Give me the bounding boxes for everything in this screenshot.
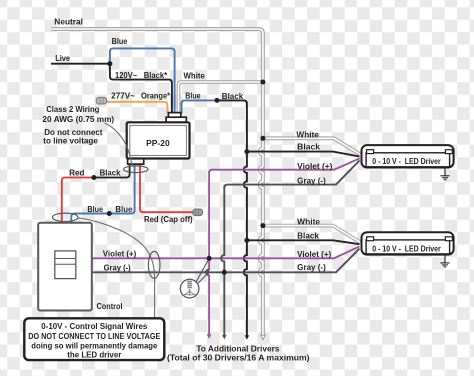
wire: violet from Control to LED driver 2 <box>92 246 360 258</box>
svg-text:Gray (-): Gray (-) <box>297 263 326 272</box>
wire: black trunk from blue junction down (hops left) <box>217 100 247 336</box>
wire: 277V orange to PP-20 top <box>107 102 168 114</box>
svg-text:Black: Black <box>100 168 121 177</box>
wire: white branch to LED driver 2 <box>264 226 360 243</box>
svg-text:Blue: Blue <box>185 91 201 100</box>
node: black trunk / driver2 black <box>244 238 249 243</box>
wire nut on 277V orange lead <box>96 97 107 104</box>
svg-text:DO NOT CONNECT TO LINE VOLTAGE: DO NOT CONNECT TO LINE VOLTAGE <box>28 332 161 341</box>
arrow: white trunk to additional drivers <box>261 335 266 340</box>
wire: violet trunk vertical (hops left at gray crossing) <box>206 172 209 336</box>
node: violet trunk junction <box>207 256 212 261</box>
cap on red lead (cap off) <box>193 209 203 216</box>
wire: Neutral white trunk (hops left over crossing horizontals) <box>51 29 263 336</box>
svg-text:to line voltage: to line voltage <box>43 137 98 146</box>
svg-text:Blue: Blue <box>112 37 128 46</box>
wire: black from junction up to PP-20 bottom <box>94 164 130 178</box>
wire: gray from Control to LED driver 2 <box>92 249 360 273</box>
ground symbol driver 2 <box>440 255 449 267</box>
control (0-10V dimmer) box <box>38 223 92 311</box>
wire: black branch to LED driver 2 <box>247 240 360 244</box>
svg-text:Red (Cap off): Red (Cap off) <box>144 215 193 224</box>
svg-text:120V~: 120V~ <box>115 71 137 80</box>
warning note box <box>24 318 164 360</box>
ellipse around PP-20 bottom leads <box>124 166 148 173</box>
svg-text:Red: Red <box>69 168 84 177</box>
twisted-pair detail icon <box>180 279 199 298</box>
PP-20 bottom connector <box>128 158 144 164</box>
node: white trunk / driver2 white <box>260 223 265 228</box>
svg-text:Neutral: Neutral <box>54 18 83 27</box>
node: white trunk / driver1 white <box>260 136 265 141</box>
LED driver 1 box <box>362 145 454 167</box>
leader from twist icon to gray wire with arrowhead <box>198 273 208 283</box>
svg-text:Violet (+): Violet (+) <box>103 249 137 258</box>
PP-20 top connector <box>166 113 186 123</box>
ellipse around control top leads <box>52 213 78 221</box>
ground symbol driver 1 <box>440 168 449 180</box>
wire: red from Control up to junction <box>62 178 94 223</box>
svg-text:White: White <box>297 217 320 226</box>
wire: blue from Control up to PP-20 bottom <box>71 164 134 223</box>
ellipse around violet/gray pair <box>148 251 160 278</box>
svg-text:Violet (+): Violet (+) <box>297 162 333 171</box>
node: blue-blue junction <box>107 211 112 216</box>
node: Live/blue/black junction <box>107 61 112 66</box>
wire: white branch to LED driver 1 <box>264 138 360 154</box>
svg-text:Control: Control <box>97 302 123 311</box>
node: white trunk / PP-20 white <box>260 80 265 85</box>
svg-text:To Additional Drivers: To Additional Drivers <box>196 344 280 353</box>
wire: blue from Live junction over to PP-20 top <box>110 48 175 113</box>
wire: red capped-off lead from PP-20 bottom <box>140 164 193 213</box>
svg-text:20 AWG (0.75 mm): 20 AWG (0.75 mm) <box>42 115 114 124</box>
wire: 120V black from Live junction to PP-20 top <box>110 64 172 114</box>
leader curve from Class 2 note to PP-20 leads <box>105 123 133 166</box>
node: gray trunk junction <box>222 270 227 275</box>
svg-text:277V~: 277V~ <box>111 91 135 100</box>
svg-text:Blue: Blue <box>115 205 133 214</box>
svg-text:Blue: Blue <box>87 205 103 214</box>
wire: violet branch to LED driver 1 <box>209 158 359 173</box>
leader curve from warning box to control leads <box>78 218 155 318</box>
wire: white branch from PP-20 to neutral trunk <box>179 82 262 114</box>
svg-text:White: White <box>296 130 319 139</box>
svg-text:Orange*: Orange* <box>141 91 171 100</box>
svg-text:PP-20: PP-20 <box>146 139 170 148</box>
arrow: black trunk to additional drivers <box>245 335 250 340</box>
power pack PP-20 <box>127 122 190 158</box>
node: black trunk / driver1 black <box>244 149 249 154</box>
leader from twist icon to violet junction <box>196 261 208 282</box>
svg-text:Class 2 Wiring: Class 2 Wiring <box>46 105 99 114</box>
wire: black branch to LED driver 1 <box>247 152 360 157</box>
wire: Live black <box>51 63 110 65</box>
svg-text:Violet (+): Violet (+) <box>297 250 331 259</box>
node: red-black junction <box>91 175 96 180</box>
wire: gray trunk vertical (hops left at violet crossing) <box>221 187 224 337</box>
arrow: gray trunk to additional drivers <box>222 335 227 340</box>
wire: gray branch to LED driver 1 <box>224 161 359 188</box>
node: blue-black junction <box>215 98 220 103</box>
svg-text:Black: Black <box>297 143 320 152</box>
svg-text:Black: Black <box>222 92 244 101</box>
svg-text:doing so will permanently dama: doing so will permanently damage <box>31 341 158 350</box>
svg-text:(Total of 30 Drivers/16 A maxi: (Total of 30 Drivers/16 A maximum) <box>167 354 310 363</box>
LED driver 2 box <box>362 232 454 254</box>
svg-text:0 - 10 V - LED Driver: 0 - 10 V - LED Driver <box>372 244 440 253</box>
svg-text:White: White <box>184 71 206 80</box>
svg-text:Do not connect: Do not connect <box>44 128 103 137</box>
svg-text:the LED driver: the LED driver <box>67 350 121 359</box>
wire: blue from PP-20 top to junction <box>182 100 218 113</box>
svg-text:0 - 10 V - LED Driver: 0 - 10 V - LED Driver <box>372 157 440 166</box>
svg-text:0-10V - Control Signal Wires: 0-10V - Control Signal Wires <box>41 322 148 331</box>
svg-text:Black: Black <box>297 232 319 241</box>
svg-text:Live: Live <box>55 54 70 63</box>
svg-text:Gray (-): Gray (-) <box>104 263 131 272</box>
arrow: violet trunk to additional drivers <box>207 334 212 339</box>
svg-text:Black*: Black* <box>144 71 168 80</box>
svg-text:Gray (-): Gray (-) <box>297 176 326 185</box>
